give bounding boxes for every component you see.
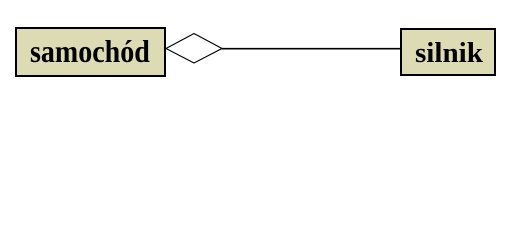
wire and relationship diamond: [0, 0, 512, 114]
label samochód: [30, 50, 150, 52]
wire: [222, 48, 400, 50]
entity samochód: [15, 27, 167, 77]
label silnik: [415, 53, 483, 55]
relationship diamond: [166, 34, 222, 64]
entity silnik: [400, 28, 496, 76]
